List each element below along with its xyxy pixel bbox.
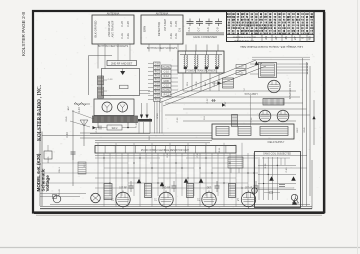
svg-text:C-8: C-8 [155,87,160,90]
svg-text:24: 24 [264,36,268,40]
svg-text:GANG COIL SUBJECTED: GANG COIL SUBJECTED [263,153,291,156]
svg-text:C-6: C-6 [188,27,191,32]
svg-text:C-3B: C-3B [170,21,173,27]
svg-text:BLK OR RED: BLK OR RED [94,21,98,38]
svg-text:45: 45 [284,36,288,40]
svg-text:R-3: R-3 [155,75,160,78]
svg-text:C-40: C-40 [286,167,288,173]
svg-text:C-18: C-18 [251,117,253,123]
svg-text:GND: GND [304,127,306,132]
svg-text:POWER TRANSFORMER: POWER TRANSFORMER [186,70,216,73]
svg-text:ANT: ANT [67,105,70,110]
svg-text:C-9: C-9 [217,27,220,32]
svg-text:C-22: C-22 [207,98,209,104]
svg-text:PLATE: PLATE [162,66,170,69]
svg-text:C-8: C-8 [155,67,160,70]
svg-text:FIELD SUPPLY: FIELD SUPPLY [268,141,285,144]
svg-text:C-2B: C-2B [127,21,130,27]
svg-text:RED: RED [214,81,216,86]
svg-text:DET: DET [207,188,212,190]
svg-text:SW-2: SW-2 [112,128,118,130]
svg-text:C-8: C-8 [155,95,160,98]
svg-text:REC: REC [297,127,299,132]
svg-text:X: X [301,37,305,39]
svg-text:PLUG: PLUG [59,189,61,195]
svg-text:1ST 3 AMP: 1ST 3 AMP [164,19,167,31]
svg-text:GRID: GRID [163,80,169,83]
svg-text:R-10: R-10 [167,152,169,158]
svg-text:C-3A: C-3A [170,33,173,39]
svg-text:C-4A: C-4A [175,33,178,39]
svg-text:SW-1: SW-1 [59,167,61,173]
svg-text:2 MFD: 2 MFD [48,156,50,163]
svg-text:C-15: C-15 [136,122,138,128]
svg-text:1ST AF: 1ST AF [245,187,253,190]
svg-text:C-1A: C-1A [121,33,124,39]
svg-text:C-17: C-17 [225,101,227,107]
svg-text:D.C. VOLTS PLATE: D.C. VOLTS PLATE [234,39,254,42]
svg-text:R-20: R-20 [78,107,81,113]
svg-text:R-3: R-3 [155,79,160,82]
svg-text:C-23: C-23 [239,67,245,69]
svg-text:GND: GND [66,116,68,121]
svg-text:DETECTOR: DETECTOR [157,22,161,36]
svg-text:C-8: C-8 [207,27,210,32]
svg-text:C-24: C-24 [239,73,245,75]
svg-text:R-3: R-3 [155,91,160,94]
svg-text:2ND RF: 2ND RF [162,188,171,190]
svg-text:2ND RF AND DET: 2ND RF AND DET [111,61,133,65]
svg-text:GANG CONDENSER: GANG CONDENSER [193,36,217,39]
svg-text:PLATE: PLATE [162,89,170,92]
svg-text:C-10: C-10 [164,84,170,87]
svg-text:C-19: C-19 [197,152,199,158]
svg-text:27: 27 [274,36,278,40]
svg-text:R-2: R-2 [155,71,160,74]
svg-text:C-1B: C-1B [121,21,124,27]
svg-text:SPKR: SPKR [157,113,159,119]
svg-text:ANT. TRANSF: ANT. TRANSF [111,20,115,37]
svg-text:1ST RF: 1ST RF [119,188,127,190]
svg-text:C-5: C-5 [179,27,182,32]
svg-text:GRN: GRN [143,26,147,32]
svg-text:KOLSTER PAGE 2-8: KOLSTER PAGE 2-8 [21,12,26,56]
svg-text:ANTENNA: ANTENNA [156,12,169,16]
svg-text:BOTTOM VIEW SOCKETS: BOTTOM VIEW SOCKETS [98,45,129,48]
svg-text:BLK: BLK [205,81,207,86]
svg-text:C-16: C-16 [177,117,179,123]
svg-text:R-11: R-11 [219,147,221,152]
svg-text:C-14: C-14 [96,127,98,133]
svg-text:2ND RF AND: 2ND RF AND [107,21,111,37]
svg-text:SPEAKER PLUG: SPEAKER PLUG [289,81,292,100]
svg-text:25,000 OHMS FLEXIBLE RESISTOR: 25,000 OHMS FLEXIBLE RESISTOR UNIT [141,149,190,152]
svg-text:GRN: GRN [196,81,198,86]
svg-text:A.C. VOLTS FILAMENT: A.C. VOLTS FILAMENT [232,36,256,39]
svg-text:2Y: 2Y [293,36,297,40]
svg-text:Line Voltage 115--Volume Contr: Line Voltage 115--Volume Control Positio… [240,45,303,49]
svg-text:C-7: C-7 [198,27,201,32]
svg-text:LAMP PLUG: LAMP PLUG [244,92,257,95]
svg-text:C-2A: C-2A [127,33,130,39]
svg-text:C-30: C-30 [66,132,69,138]
svg-text:C-13: C-13 [108,79,114,81]
svg-text:C-8: C-8 [155,63,160,66]
svg-text:R-12: R-12 [164,75,170,78]
svg-text:ANTENNA: ANTENNA [107,12,120,16]
